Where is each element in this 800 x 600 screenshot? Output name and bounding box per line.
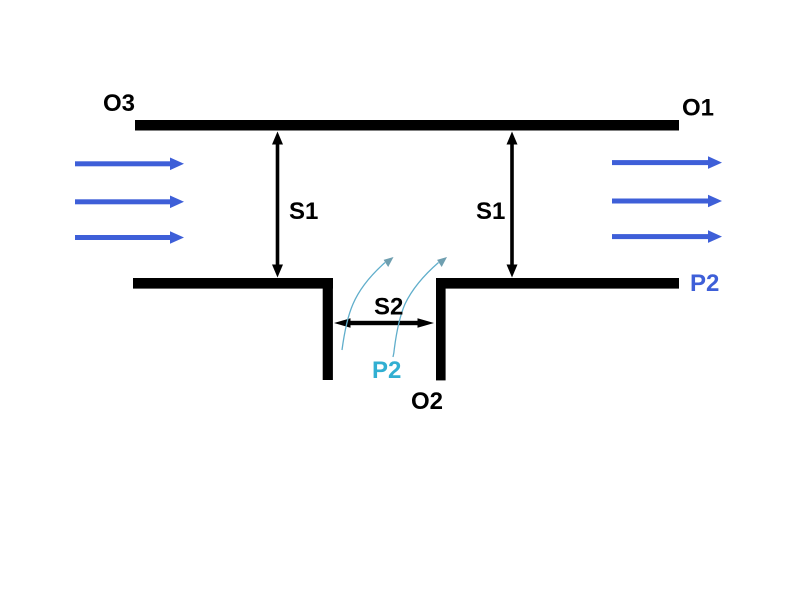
svg-text:O2: O2 — [411, 388, 443, 415]
svg-text:S1: S1 — [289, 198, 318, 225]
svg-text:O3: O3 — [103, 90, 135, 117]
right flow arrow 2 — [612, 195, 722, 208]
svg-text:S2: S2 — [374, 293, 403, 320]
left flow arrow 3 — [75, 231, 184, 244]
S2 dimension arrow (horizontal double-headed across slot) — [334, 318, 434, 328]
svg-text:P2: P2 — [690, 270, 719, 297]
S1 dimension arrow left (vertical double-headed) — [272, 132, 283, 278]
svg-text:P2: P2 — [372, 357, 401, 384]
top wall (plate between O3 and O1) — [135, 120, 679, 131]
svg-text:S1: S1 — [476, 198, 505, 225]
curved flow arrow 2 head — [437, 257, 447, 267]
bottom-right wall horizontal segment — [436, 278, 679, 289]
bottom-left wall horizontal segment — [133, 278, 333, 289]
bottom-left wall vertical segment (left side of slot O2) — [323, 278, 333, 380]
svg-text:O1: O1 — [682, 94, 714, 121]
curved flow arrow 2 (teal) — [393, 263, 439, 358]
right flow arrow 1 (blue, outlet O1) — [612, 156, 722, 169]
left flow arrow 1 (blue, inlet O3) — [75, 158, 184, 171]
right flow arrow 3 — [612, 230, 722, 243]
S1 dimension arrow right (vertical double-headed) — [507, 132, 518, 278]
curved flow arrow 1 (teal, from slot O2 up through gap) — [342, 263, 385, 351]
left flow arrow 2 — [75, 196, 184, 209]
bottom-right wall vertical segment (right side of slot O2) — [436, 278, 446, 380]
curved flow arrow 1 head — [384, 257, 394, 267]
